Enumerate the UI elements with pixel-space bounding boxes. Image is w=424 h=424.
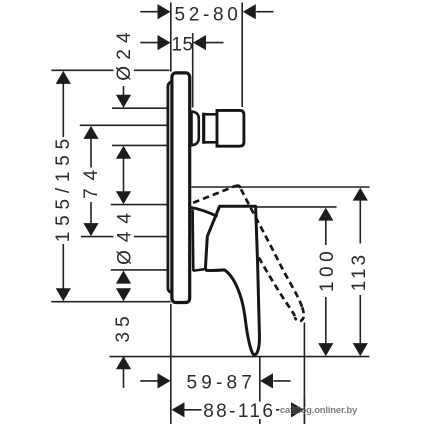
arrow: 35 bottom (points up): [116, 356, 131, 369]
svg-text:35: 35: [113, 311, 134, 343]
arrow: O24 top (points down): [116, 95, 131, 108]
svg-text:Ø44: Ø44: [114, 205, 135, 265]
wire: 88-116 dim line right stub: [274, 409, 292, 411]
wire: 155/155 dim line lower segment: [62, 244, 64, 289]
wire: knob bottom extension line y145: [112, 144, 167, 146]
arrow: 88-116 left: [172, 402, 185, 417]
label 155/155 (rotated): [53, 139, 73, 242]
escutcheon plate (side view): [172, 73, 190, 303]
wire: 100 dim line upper segment: [325, 220, 327, 246]
wire: dashed lever tip extension line (over watermark): [303, 398, 305, 424]
arrow: 59-87 left: [158, 373, 171, 388]
svg-text:100: 100: [317, 247, 338, 292]
wire: lever tip level extension line y356: [110, 356, 370, 358]
wire: 100 dim line lower segment: [325, 297, 327, 345]
svg-text:155/155: 155/155: [53, 133, 74, 242]
label 88-116: [202, 402, 277, 420]
wire: 59-87 dim line right tail: [274, 380, 291, 382]
label 74 (rotated): [82, 169, 101, 201]
wire: body bottom extension line y270 left: [111, 269, 169, 271]
wire: wall extension line below plate: [170, 304, 172, 424]
wire: 59-87 dim line left tail: [140, 380, 157, 382]
wire: 74 dim line lower segment: [90, 202, 92, 224]
arrow: 35 top (points down): [116, 288, 131, 301]
wire: 52-80 dim line left tail: [140, 11, 157, 13]
svg-text:59-87: 59-87: [186, 373, 256, 394]
arrow: 88-116 right (over watermark): [291, 402, 304, 417]
wire: knob top extension line y108: [112, 107, 167, 109]
diverter knob collar: [202, 113, 206, 144]
arrow: O44 top (points down): [116, 191, 131, 204]
wire: 52-80 dim line right tail: [256, 11, 273, 13]
svg-text:15: 15: [171, 35, 193, 56]
svg-text:Ø24: Ø24: [114, 26, 135, 81]
wire: 88-116 dim line left stub: [185, 409, 204, 411]
dashed lever inner edge: [259, 258, 295, 317]
wire: plate front extension line x192.7: [192, 33, 194, 108]
arrow: 59-87 right: [260, 373, 273, 388]
svg-text:74: 74: [81, 162, 102, 199]
diverter knob ring: [204, 114, 217, 142]
arrow: 74 bottom: [83, 223, 98, 236]
wire: tail between O24 and O44 arrows: [123, 158, 125, 193]
arrow: 74 top: [83, 126, 98, 139]
arrow: 88-116 right: [291, 402, 304, 417]
dashed lever peak arc: [236, 186, 242, 190]
wire: body top extension line y207 right: [256, 206, 337, 208]
arrow: 155/155 bottom: [56, 288, 71, 301]
wire: knob end extension line x242.2: [241, 3, 243, 108]
arrow: 52-80 right: [243, 4, 256, 19]
arrow: 52-80 left: [158, 4, 171, 19]
wire: body top extension line y205 left: [111, 204, 169, 206]
dashed lever outer edge: [241, 189, 302, 307]
arrow: 15 left: [158, 35, 171, 50]
label 113 (rotated): [350, 254, 369, 295]
wire: knob axis extension line y125: [80, 124, 167, 126]
valve body and lever (solid position): [205, 206, 259, 354]
svg-text:52-80: 52-80: [174, 4, 241, 25]
wire: 74 dim line upper segment: [90, 138, 92, 168]
wire: plate bottom extension line y301: [51, 301, 170, 303]
wire: lever tip extension line x259.8: [259, 357, 261, 424]
svg-text:88-116: 88-116: [203, 401, 275, 422]
label O44 (rotated): [114, 211, 135, 265]
arrow: O24 bottom (points up): [116, 146, 131, 159]
dashed lever tip arc: [295, 307, 304, 321]
diverter knob end cap: [217, 110, 244, 146]
label 52-80: [175, 5, 240, 23]
escutcheon cone upper silhouette: [191, 208, 218, 217]
arrow: 100 top: [318, 208, 333, 221]
label 59-87: [187, 373, 254, 391]
escutcheon cone front edge: [191, 210, 194, 271]
label 35 (rotated): [113, 315, 133, 344]
arrow: 155/155 top: [56, 71, 71, 84]
wire: 15 dim line right tail: [206, 42, 224, 44]
wire: dashed lever tip extension line x304.4: [303, 323, 305, 424]
label O24 (rotated): [114, 31, 135, 81]
arrow: 15 right: [193, 35, 206, 50]
wire: O24 arrow tail: [123, 86, 125, 96]
mounting sleeve behind plate: [168, 82, 180, 293]
label 100 (rotated): [317, 250, 336, 292]
wire: 35 arrow bottom tail: [123, 368, 125, 388]
dashed lever upper-left edge: [193, 186, 235, 203]
arrow: 100 bottom: [318, 343, 333, 356]
wire: 155/155 dim line upper segment: [62, 83, 64, 137]
label 15: [173, 36, 192, 53]
arrow: O44 bottom (points up): [116, 271, 131, 284]
wire: 113 dim line upper segment: [359, 200, 361, 244]
svg-text:113: 113: [349, 252, 370, 291]
wire: dashed-lever top extension line y187: [192, 186, 370, 188]
escutcheon cone bottom edge: [193, 269, 206, 271]
wire: pivot axis extension line y236: [81, 236, 169, 238]
arrow: 113 top: [353, 188, 368, 201]
wire: 15 dim line left tail: [140, 42, 157, 44]
arrow: 113 bottom: [353, 343, 368, 356]
diverter knob bell: [192, 112, 199, 146]
wire: plate top extension line y70: [51, 69, 169, 71]
wire: wall extension line above plate: [170, 3, 172, 72]
wire: 113 dim line lower segment: [359, 295, 361, 345]
